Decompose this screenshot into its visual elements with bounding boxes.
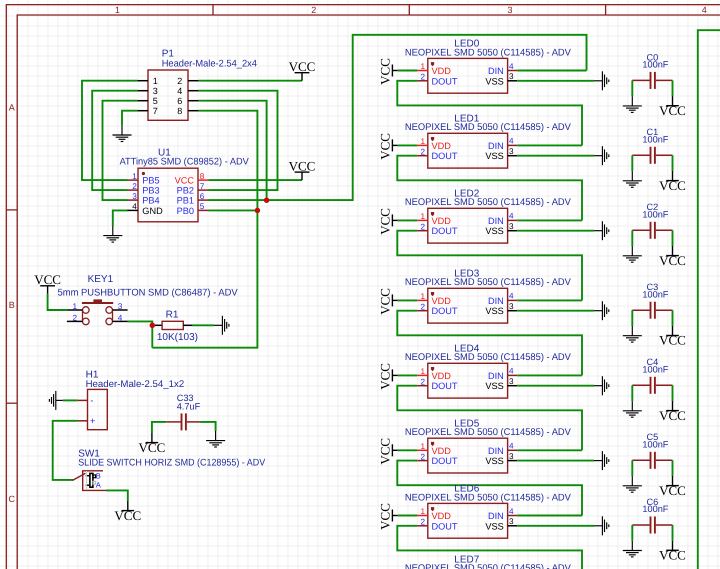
svg-text:3: 3	[132, 192, 137, 201]
svg-text:4: 4	[509, 62, 514, 71]
VCC flag below C1	[666, 171, 679, 181]
svg-text:4: 4	[132, 202, 137, 211]
svg-text:2: 2	[420, 302, 425, 311]
pushbutton KEY1 5mm PUSHBUTTON SMD (C86487) - ADV	[58, 274, 239, 299]
connector P1 Header-Male-2.54_2x4	[148, 49, 258, 121]
wire LED5 DOUT to LED6 DIN	[397, 461, 582, 516]
svg-text:DIN: DIN	[488, 296, 504, 306]
NeoPixel LED5 NEOPIXEL SMD 5050 (C114685) - ADV	[405, 418, 572, 473]
wire VCC to KEY1.1	[48, 294, 68, 310]
svg-text:1: 1	[420, 507, 425, 516]
svg-text:VDD: VDD	[432, 371, 452, 381]
NeoPixel LED1 NEOPIXEL SMD 5050 (C114685) - ADV	[405, 113, 572, 168]
svg-text:VCC: VCC	[377, 363, 392, 390]
svg-text:VSS: VSS	[485, 306, 503, 316]
svg-text:B: B	[9, 300, 15, 310]
svg-text:DIN: DIN	[488, 216, 504, 226]
wire C3 right to VCC	[672, 310, 674, 326]
LED1 pins VDD DOUT DIN VSS	[417, 137, 517, 162]
svg-text:NEOPIXEL SMD 5050 (C114585) -: NEOPIXEL SMD 5050 (C114585) - ADV	[405, 563, 572, 569]
wire LED5.DIN to chain	[517, 449, 582, 451]
svg-text:NEOPIXEL SMD 5050 (C114585) -: NEOPIXEL SMD 5050 (C114585) - ADV	[405, 427, 572, 438]
svg-text:PB5: PB5	[142, 176, 159, 186]
svg-text:6: 6	[200, 192, 205, 201]
wire LED3.VSS to ground	[517, 310, 594, 312]
svg-text:3: 3	[509, 517, 514, 526]
svg-text:C: C	[8, 494, 15, 504]
svg-text:ATTiny85 SMD (C89852) - ADV: ATTiny85 SMD (C89852) - ADV	[120, 157, 250, 168]
wire R1 to ground	[192, 324, 214, 326]
wire U1.PB0 to net PB0	[209, 209, 258, 211]
wire LED3 DOUT to LED4 DIN	[397, 311, 582, 376]
capacitor C0 100nF	[632, 52, 672, 89]
NeoPixel LED2 NEOPIXEL SMD 5050 (C114685) - ADV	[405, 188, 572, 243]
wire C1 right to VCC	[672, 155, 674, 171]
svg-text:4: 4	[509, 442, 514, 451]
VCC flag below C3	[666, 326, 679, 336]
svg-text:VCC: VCC	[659, 178, 686, 193]
P1 pins 1-8 with numbers	[137, 76, 198, 116]
svg-text:1: 1	[420, 212, 425, 221]
svg-text:1: 1	[420, 292, 425, 301]
svg-text:3: 3	[509, 302, 514, 311]
VCC flag left of LED0	[392, 65, 397, 77]
wire P1.3 to U1.PB3	[92, 91, 137, 190]
wire VCC to LED1.VDD	[398, 144, 417, 146]
ground below C2	[623, 246, 642, 262]
wire C2 left to ground	[631, 230, 633, 246]
svg-text:3: 3	[118, 302, 123, 311]
svg-text:PB4: PB4	[142, 196, 159, 206]
wire LED4 DOUT to LED5 DIN	[397, 386, 582, 451]
VCC flag right of U1	[295, 172, 310, 180]
ground right of LED5	[594, 451, 609, 470]
ground right of R1	[214, 316, 229, 335]
svg-text:2: 2	[177, 76, 182, 86]
VCC flag left of LED1	[392, 139, 397, 151]
svg-text:DIN: DIN	[488, 141, 504, 151]
capacitor C3 100nF	[632, 282, 672, 319]
svg-text:VDD: VDD	[432, 66, 452, 76]
svg-text:DOUT: DOUT	[432, 76, 458, 86]
H1 pins - and +	[78, 396, 96, 428]
ground right of LED0	[594, 71, 609, 90]
NeoPixel LED7 NEOPIXEL SMD 5050 (C114685) - ADV	[405, 554, 572, 569]
svg-text:3: 3	[509, 147, 514, 156]
svg-text:100nF: 100nF	[642, 289, 668, 299]
svg-text:VDD: VDD	[432, 216, 452, 226]
wire H1.1 to ground	[63, 399, 78, 401]
VCC flag below C6	[666, 541, 679, 551]
svg-text:100nF: 100nF	[642, 60, 668, 70]
ground right of LED6	[594, 516, 609, 535]
svg-text:-: -	[90, 396, 93, 407]
ground right of LED1	[594, 146, 609, 165]
svg-text:1: 1	[420, 137, 425, 146]
ground left of H1	[49, 391, 62, 410]
svg-text:5: 5	[153, 96, 158, 106]
wire net PB1: U1.PB1 up over to LED0.DIN	[209, 35, 587, 200]
wire C5 right to VCC	[672, 460, 674, 476]
svg-text:2: 2	[420, 222, 425, 231]
svg-text:VSS: VSS	[485, 381, 503, 391]
svg-text:DIN: DIN	[488, 371, 504, 381]
capacitor C1 100nF	[632, 127, 672, 164]
capacitor C33 4.7uF	[166, 393, 200, 430]
svg-text:2: 2	[311, 5, 316, 15]
wire C5 left to ground	[631, 460, 633, 476]
wire C1 left to ground	[631, 155, 633, 171]
svg-text:100nF: 100nF	[642, 504, 668, 514]
svg-text:4: 4	[509, 292, 514, 301]
svg-text:VCC: VCC	[659, 408, 686, 423]
svg-text:VCC: VCC	[659, 103, 686, 118]
svg-text:VCC: VCC	[114, 508, 141, 523]
svg-text:VCC: VCC	[377, 503, 392, 530]
svg-text:VDD: VDD	[432, 141, 452, 151]
wire C4 left to ground	[631, 385, 633, 401]
wire KEY1.4 down to R1 junction	[128, 321, 153, 347]
svg-text:2: 2	[132, 182, 137, 191]
wire C4 right to VCC	[672, 385, 674, 401]
svg-text:PB1: PB1	[177, 196, 194, 206]
wire C2 right to VCC	[672, 230, 674, 246]
U1 pins PB5 PB3 PB4 GND / VCC PB2 PB1 PB0	[128, 172, 209, 216]
wire LED2 DOUT to LED3 DIN	[397, 231, 582, 301]
wire LED1.VSS to ground	[517, 155, 594, 157]
svg-text:VCC: VCC	[659, 333, 686, 348]
svg-text:2: 2	[420, 518, 425, 527]
svg-text:4: 4	[177, 86, 182, 96]
svg-text:GND: GND	[142, 206, 163, 216]
VCC flag left of LED4	[392, 369, 397, 381]
svg-text:5: 5	[200, 202, 205, 211]
wire P1.1 to U1.PB5	[82, 81, 137, 180]
IC U1 ATTiny85 SMD (C89852) - ADV	[120, 147, 250, 221]
svg-text:VCC: VCC	[377, 133, 392, 160]
svg-text:VCC: VCC	[377, 438, 392, 465]
svg-text:R1: R1	[166, 310, 179, 321]
svg-text:3: 3	[507, 5, 512, 15]
svg-text:8: 8	[177, 106, 182, 116]
wire C6 right to VCC	[672, 525, 674, 541]
wire VCC to LED0.VDD	[398, 70, 417, 72]
svg-text:VCC: VCC	[175, 176, 195, 186]
svg-text:SLIDE SWITCH HORIZ SMD (C12895: SLIDE SWITCH HORIZ SMD (C128955) - ADV	[78, 458, 265, 469]
svg-text:4: 4	[118, 313, 123, 322]
svg-text:100nF: 100nF	[642, 364, 668, 374]
svg-text:VCC: VCC	[377, 208, 392, 235]
wire LED6.DIN to chain	[517, 515, 582, 517]
svg-text:KEY1: KEY1	[88, 274, 114, 285]
LED6 pins VDD DOUT DIN VSS	[417, 507, 517, 532]
wire P1.7 to ground	[122, 111, 137, 126]
wire C0 right to VCC	[672, 80, 674, 96]
ground right of LED3	[594, 301, 609, 320]
svg-text:100nF: 100nF	[642, 209, 668, 219]
ground below U1	[103, 226, 122, 242]
svg-text:VCC: VCC	[289, 59, 316, 74]
svg-text:1: 1	[153, 76, 158, 86]
svg-text:4: 4	[509, 137, 514, 146]
switch SW1 SLIDE SWITCH HORIZ SMD (C128955) - ADV	[78, 448, 265, 468]
LED3 pins VDD DOUT DIN VSS	[417, 292, 517, 317]
LED5 pins VDD DOUT DIN VSS	[417, 442, 517, 467]
wire LED5.VSS to ground	[517, 460, 594, 462]
ground below C33	[206, 431, 225, 447]
svg-text:VSS: VSS	[485, 151, 503, 161]
ground below C4	[623, 401, 642, 417]
NeoPixel LED6 NEOPIXEL SMD 5050 (C114685) - ADV	[405, 484, 572, 539]
svg-text:1: 1	[115, 5, 120, 15]
wire VCC to LED6.VDD	[398, 515, 417, 517]
LED0 pins VDD DOUT DIN VSS	[417, 62, 517, 87]
svg-text:10K(103): 10K(103)	[157, 332, 198, 343]
svg-text:VCC: VCC	[377, 58, 392, 85]
wire C33 left to VCC	[152, 422, 166, 433]
svg-text:+: +	[90, 416, 96, 427]
svg-text:4.7uF: 4.7uF	[177, 402, 201, 412]
svg-text:100nF: 100nF	[642, 134, 668, 144]
capacitor C4 100nF	[632, 357, 672, 394]
svg-text:VCC: VCC	[34, 272, 61, 287]
wire VCC to LED2.VDD	[398, 219, 417, 221]
wire P1.8 / net PB0 down to KEY1-R1 junction	[152, 111, 257, 348]
svg-text:3: 3	[509, 452, 514, 461]
svg-text:DIN: DIN	[488, 66, 504, 76]
VCC flag below C0	[666, 96, 679, 106]
svg-text:DIN: DIN	[488, 511, 504, 521]
svg-text:4: 4	[509, 212, 514, 221]
wire LED0.DIN to net PB1	[517, 70, 586, 72]
ground below C1	[623, 171, 642, 187]
svg-text:VSS: VSS	[485, 521, 503, 531]
svg-text:DIN: DIN	[488, 446, 504, 456]
ground below P1 pin7	[113, 125, 132, 141]
svg-text:VCC: VCC	[659, 548, 686, 563]
wire LED6.VSS to ground	[517, 525, 594, 527]
ground right of LED4	[594, 376, 609, 395]
wire VCC to LED4.VDD	[398, 374, 417, 376]
wire C33 right to ground	[199, 422, 215, 431]
svg-text:A: A	[9, 103, 15, 113]
svg-text:7: 7	[153, 106, 158, 116]
capacitor C6 100nF	[632, 497, 672, 534]
ground below C3	[623, 326, 642, 342]
svg-text:3: 3	[509, 377, 514, 386]
svg-text:PB2: PB2	[177, 186, 194, 196]
wire P1.5 to U1.PB4	[103, 101, 138, 200]
VCC flag left of LED5	[392, 444, 397, 456]
wire C6 left to ground	[631, 525, 633, 541]
VCC flag below C4	[666, 401, 679, 411]
wire P1.6 to node PB1	[199, 101, 267, 201]
svg-text:2: 2	[420, 147, 425, 156]
VCC flag above KEY1	[40, 286, 55, 294]
junction node PB1 / P1.6	[264, 197, 270, 203]
svg-text:DOUT: DOUT	[432, 521, 458, 531]
LED2 pins VDD DOUT DIN VSS	[417, 212, 517, 237]
svg-text:VCC: VCC	[659, 253, 686, 268]
svg-text:VCC: VCC	[377, 288, 392, 315]
svg-text:3: 3	[509, 222, 514, 231]
svg-text:2: 2	[72, 313, 77, 322]
VCC flag below SW1	[122, 501, 135, 511]
svg-text:PB0: PB0	[177, 206, 194, 216]
wire LED2.DIN to chain	[517, 219, 582, 221]
svg-text:NEOPIXEL SMD 5050 (C114585) -: NEOPIXEL SMD 5050 (C114585) - ADV	[405, 47, 572, 58]
VCC flag left of LED3	[392, 294, 397, 306]
junction KEY1/R1/PB0 net	[150, 323, 156, 329]
svg-text:VDD: VDD	[432, 296, 452, 306]
VCC flag below C2	[666, 246, 679, 256]
KEY1 symbol with pins 1-4	[67, 299, 128, 324]
VCC flag below C5	[666, 476, 679, 486]
ground below C0	[623, 96, 642, 112]
svg-text:1: 1	[72, 302, 77, 311]
wire LED1.DIN to chain	[517, 144, 582, 146]
svg-text:DOUT: DOUT	[432, 151, 458, 161]
wire P1.2 to VCC	[199, 80, 302, 82]
svg-text:NEOPIXEL SMD 5050 (C114585) -: NEOPIXEL SMD 5050 (C114585) - ADV	[405, 492, 572, 503]
svg-text:NEOPIXEL SMD 5050 (C114585) -: NEOPIXEL SMD 5050 (C114585) - ADV	[405, 197, 572, 208]
NeoPixel LED3 NEOPIXEL SMD 5050 (C114685) - ADV	[405, 268, 572, 323]
svg-text:B: B	[96, 472, 101, 481]
svg-text:100nF: 100nF	[642, 439, 668, 449]
svg-text:VDD: VDD	[432, 446, 452, 456]
svg-text:NEOPIXEL SMD 5050 (C114585) -: NEOPIXEL SMD 5050 (C114585) - ADV	[405, 277, 572, 288]
svg-text:7: 7	[200, 182, 205, 191]
svg-text:3: 3	[153, 86, 158, 96]
wire LED2.VSS to ground	[517, 230, 594, 232]
svg-text:5mm PUSHBUTTON SMD (C86487) -: 5mm PUSHBUTTON SMD (C86487) - ADV	[58, 288, 239, 299]
capacitor C5 100nF	[632, 432, 672, 469]
wire C3 left to ground	[631, 310, 633, 326]
svg-text:DOUT: DOUT	[432, 456, 458, 466]
wire LED1 DOUT to LED2 DIN	[397, 156, 582, 221]
wire C0 left to ground	[631, 80, 633, 96]
LED4 pins VDD DOUT DIN VSS	[417, 367, 517, 392]
ground below C5	[623, 476, 642, 492]
ground right of LED2	[594, 221, 609, 240]
wire LED4.DIN to chain	[517, 374, 582, 376]
wire SW1.A to VCC	[106, 490, 128, 501]
svg-text:4: 4	[509, 507, 514, 516]
svg-text:8: 8	[200, 172, 205, 181]
svg-text:3: 3	[509, 72, 514, 81]
svg-text:1: 1	[420, 442, 425, 451]
svg-text:DOUT: DOUT	[432, 306, 458, 316]
svg-text:1: 1	[132, 172, 137, 181]
wire VCC to LED5.VDD	[398, 449, 417, 451]
wire LED4.VSS to ground	[517, 385, 594, 387]
svg-text:NEOPIXEL SMD 5050 (C114585) -: NEOPIXEL SMD 5050 (C114585) - ADV	[405, 352, 572, 363]
VCC flag right of P1	[295, 73, 310, 81]
svg-text:6: 6	[177, 96, 182, 106]
wire U1.GND to ground	[113, 210, 128, 226]
wire LED0 DOUT to LED1 DIN	[397, 81, 582, 146]
wire VCC to LED3.VDD	[398, 299, 417, 301]
capacitor C2 100nF	[632, 202, 672, 239]
VCC flag left of LED2	[392, 214, 397, 226]
svg-text:1: 1	[420, 367, 425, 376]
svg-text:4: 4	[702, 5, 707, 15]
svg-text:DOUT: DOUT	[432, 226, 458, 236]
NeoPixel LED0 NEOPIXEL SMD 5050 (C114685) - ADV	[405, 39, 572, 94]
svg-text:VCC: VCC	[289, 158, 316, 173]
wire LED3.DIN to chain	[517, 299, 582, 301]
svg-text:VCC: VCC	[139, 440, 166, 455]
wire LED6 DOUT to LED7 DIN	[397, 526, 582, 569]
VCC flag below C33	[146, 433, 159, 443]
wire LED0.VSS to ground	[517, 80, 594, 82]
svg-text:PB3: PB3	[142, 186, 159, 196]
svg-text:4: 4	[509, 367, 514, 376]
svg-text:2: 2	[420, 452, 425, 461]
wire H1.2 down to SW1	[53, 421, 78, 480]
svg-text:2: 2	[420, 73, 425, 82]
svg-text:Header-Male-2.54_2x4: Header-Male-2.54_2x4	[162, 58, 258, 69]
svg-text:VSS: VSS	[485, 456, 503, 466]
VCC flag left of LED6	[392, 510, 397, 522]
svg-text:1: 1	[420, 62, 425, 71]
svg-text:VSS: VSS	[485, 76, 503, 86]
ground below C6	[623, 541, 642, 557]
resistor R1 10K(103)	[155, 310, 198, 344]
junction node PB0 / P1.8	[255, 208, 261, 214]
wire U1.VCC to VCC flag	[209, 179, 303, 181]
svg-text:2: 2	[420, 377, 425, 386]
connector H1 Header-Male-2.54_1x2	[86, 370, 185, 430]
NeoPixel LED4 NEOPIXEL SMD 5050 (C114685) - ADV	[405, 343, 572, 398]
svg-text:VSS: VSS	[485, 226, 503, 236]
svg-text:NEOPIXEL SMD 5050 (C114585) -: NEOPIXEL SMD 5050 (C114585) - ADV	[405, 122, 572, 133]
SW1 symbol with contacts B and A	[73, 471, 107, 491]
wire right vertical bus to off-sheet	[698, 30, 720, 569]
svg-text:VCC: VCC	[659, 483, 686, 498]
svg-text:Header-Male-2.54_1x2: Header-Male-2.54_1x2	[86, 379, 185, 390]
wire P1.4 to U1.PB2	[199, 91, 278, 190]
svg-text:VDD: VDD	[432, 511, 452, 521]
svg-text:DOUT: DOUT	[432, 381, 458, 391]
